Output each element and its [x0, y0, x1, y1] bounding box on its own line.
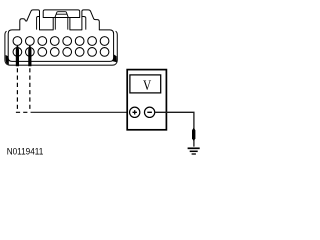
- ground symbol G1: [188, 147, 200, 149]
- pin 13: [63, 48, 72, 57]
- pin 8: [100, 37, 109, 46]
- pin 2: [26, 37, 35, 46]
- voltmeter negative terminal: [144, 107, 154, 117]
- connector C1 latch button: [55, 12, 68, 18]
- pin 16: [100, 48, 109, 57]
- dashed test lead wire from probe P1: [16, 68, 18, 110]
- pin 5: [63, 37, 72, 46]
- minus sign: [147, 111, 152, 113]
- test probe P1 in pin 9: [16, 45, 19, 66]
- pin 9: [13, 48, 22, 57]
- pin 10: [26, 48, 35, 57]
- connector C1 latch neck inner edges: [55, 18, 68, 30]
- svg-text:V: V: [143, 77, 152, 94]
- pin 6: [75, 37, 84, 46]
- wire from negative terminal to ground: [155, 112, 194, 146]
- pin 3: [38, 37, 47, 46]
- connector C1 latch cap bottom edge: [53, 17, 70, 19]
- pin 7: [88, 37, 97, 46]
- wire to voltmeter positive terminal: [31, 111, 131, 113]
- voltmeter M1 display window: [130, 75, 161, 93]
- connector C1 body silhouette with latch and tabs: [8, 10, 113, 62]
- pin 12: [50, 48, 59, 57]
- pin 1: [13, 37, 22, 46]
- voltmeter positive terminal: [130, 107, 140, 117]
- dashed test lead wire from probe P2: [29, 68, 31, 110]
- dashed wire corner segment: [16, 111, 31, 113]
- voltmeter M1 case: [127, 70, 166, 130]
- connector C1 bottom-right corner shadow: [113, 54, 117, 63]
- test probe P2 in pin 10: [28, 45, 31, 66]
- pin cavities row 1: [13, 37, 109, 46]
- pin cavities row 2: [13, 48, 109, 57]
- pin 14: [75, 48, 84, 57]
- wire sleeve on ground lead: [192, 128, 195, 141]
- connector C1 tab inner edge (right tab): [82, 17, 86, 30]
- connector C1 bottom-left corner shadow: [6, 55, 9, 65]
- pin 4: [50, 37, 59, 46]
- connector C1 tab inner edge (left tab): [37, 17, 40, 30]
- pin 15: [88, 48, 97, 57]
- pin 11: [38, 48, 47, 57]
- svg-text:N0119411: N0119411: [7, 145, 44, 156]
- connector C1 latch button inner line: [56, 13, 67, 15]
- connector C1 outer housing depth outline: [5, 31, 117, 65]
- plus sign: [133, 110, 137, 114]
